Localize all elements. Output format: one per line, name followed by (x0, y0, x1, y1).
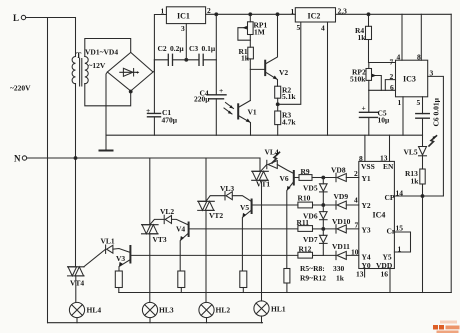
wire VL2 anode to V4 (172, 219, 189, 225)
svg-text:2,3: 2,3 (338, 7, 348, 16)
svg-text:R12: R12 (299, 245, 312, 254)
svg-text:C6 0.01μ: C6 0.01μ (432, 97, 441, 126)
svg-text:7: 7 (390, 58, 394, 67)
capacitor C3 (186, 59, 216, 61)
node L terminal (21, 15, 25, 19)
svg-text:Y2: Y2 (362, 201, 371, 210)
svg-text:VD8: VD8 (331, 166, 346, 175)
wire IC1 pin3 down (185, 24, 187, 60)
svg-text:C2: C2 (158, 44, 167, 53)
svg-text:1: 1 (291, 7, 295, 16)
wire secondary bottom loop to bridge (85, 84, 131, 106)
potentiometer RP1 (248, 22, 254, 35)
wire IC4 EN up (389, 135, 391, 161)
svg-text:VL4: VL4 (265, 148, 279, 157)
wire VT1 gate diagonal to VL4 (261, 165, 267, 171)
svg-text:3: 3 (430, 69, 434, 78)
wire left vertical from L to bottom bus (47, 18, 49, 323)
node rail junction x=216 (215, 13, 218, 16)
svg-text:N: N (14, 154, 21, 164)
svg-text:R11: R11 (297, 218, 310, 227)
wire N rail (27, 157, 260, 159)
svg-text:V1: V1 (248, 108, 257, 117)
wire regulator-out vertical x=216.3 (215, 14, 217, 135)
transformer T primary line (75, 18, 77, 57)
svg-text:VL5: VL5 (404, 148, 418, 157)
transformer T core (80, 59, 82, 87)
diode VD5 (320, 184, 328, 191)
svg-text:4: 4 (397, 53, 401, 62)
wire secondary top to bridge (85, 39, 131, 57)
IC1 box (166, 7, 205, 24)
resistor R7 (240, 271, 247, 288)
svg-text:VL3: VL3 (220, 184, 234, 193)
bridge rectifier VD1~VD4 diamond (107, 52, 153, 91)
svg-text:V5: V5 (240, 203, 249, 212)
triac VT2 (198, 201, 215, 210)
wire N rail to VT2 (205, 158, 207, 201)
resistor R13 (420, 169, 425, 184)
svg-text:R5~R8:: R5~R8: (300, 264, 325, 273)
svg-text:VL2: VL2 (160, 207, 174, 216)
wire IC2 pin4 down (327, 22, 329, 135)
svg-text:13: 13 (356, 270, 364, 279)
capacitor C2 (154, 59, 186, 61)
svg-text:V6: V6 (280, 174, 289, 183)
ground (100, 150, 113, 152)
svg-text:470μ: 470μ (162, 116, 178, 125)
svg-text:10μ: 10μ (378, 116, 391, 125)
svg-text:7: 7 (355, 221, 359, 230)
optocoupler transistor V1 (237, 104, 239, 118)
svg-text:IC3: IC3 (403, 75, 416, 84)
transistor V5 (251, 200, 253, 214)
svg-text:10: 10 (351, 248, 359, 257)
LED VL2 (165, 215, 171, 223)
wire rail IC2 right to corner (336, 13, 452, 15)
svg-text:8: 8 (417, 53, 421, 62)
node N terminal (22, 156, 26, 160)
wire IC3 pin7 (369, 62, 396, 64)
svg-text:+: + (362, 104, 366, 113)
svg-text:4: 4 (354, 196, 358, 205)
resistor R3 (275, 111, 281, 125)
wire IC1 input from bridge right vertex (153, 15, 166, 73)
svg-text:1M: 1M (254, 28, 265, 37)
svg-text:6: 6 (390, 83, 394, 92)
IC3 box (396, 60, 428, 97)
svg-text:VD9: VD9 (334, 192, 349, 201)
svg-text:VD10: VD10 (332, 217, 351, 226)
svg-text:1k: 1k (336, 274, 345, 283)
wire L top (26, 17, 76, 19)
svg-text:L: L (13, 13, 19, 23)
svg-text:15: 15 (396, 224, 404, 233)
wire IC4 VSS up (364, 135, 366, 161)
svg-text:VD7: VD7 (303, 235, 318, 244)
wire VL3 anode to V5 (232, 196, 251, 202)
svg-text:330: 330 (333, 264, 345, 273)
svg-text:VT2: VT2 (209, 211, 223, 220)
svg-text:R9~R12: R9~R12 (300, 274, 326, 283)
svg-text:R10: R10 (298, 194, 311, 203)
svg-text:VD1~VD4: VD1~VD4 (85, 48, 118, 57)
svg-text:0.2μ: 0.2μ (170, 44, 184, 53)
wire right rail down (450, 14, 452, 292)
svg-text:1k: 1k (358, 33, 367, 42)
wire N rail to VT3 (149, 158, 151, 225)
diode VD8 (337, 174, 346, 182)
svg-text:VSS: VSS (361, 162, 375, 171)
wire IC3 pin1 down (402, 97, 404, 135)
svg-text:Y3: Y3 (362, 226, 371, 235)
svg-text:16: 16 (381, 270, 389, 279)
svg-text:VT4: VT4 (70, 279, 84, 288)
svg-text:HL4: HL4 (87, 306, 102, 315)
svg-text:VL1: VL1 (101, 237, 115, 246)
wire VDD bus (119, 292, 451, 294)
LED VL3 (226, 192, 232, 200)
svg-text:R9: R9 (301, 167, 310, 176)
diode VD11 (337, 251, 346, 259)
svg-text:C3: C3 (189, 44, 198, 53)
svg-text:V2: V2 (279, 68, 288, 77)
svg-text:13: 13 (380, 154, 388, 163)
svg-text:Cr: Cr (387, 227, 396, 236)
svg-text:VT1: VT1 (256, 180, 270, 189)
capacitor C6 (416, 114, 430, 119)
LED VL1 (107, 245, 113, 253)
wire IC2 pin5 down (278, 22, 301, 104)
transistor V2 (264, 61, 266, 75)
svg-text:1k: 1k (241, 54, 250, 63)
wire IC3 pin5 down to C6 (422, 97, 424, 135)
svg-text:+: + (219, 86, 223, 95)
triac VT3 (142, 225, 159, 234)
potentiometer RP2 (366, 69, 372, 81)
svg-text:V4: V4 (176, 225, 185, 234)
capacitor C1 (148, 113, 161, 116)
svg-text:HL2: HL2 (216, 306, 231, 315)
wire VT4 gate diagonal to VL1 (84, 249, 106, 267)
resistor R1 (248, 47, 254, 59)
svg-text:CP: CP (385, 193, 395, 202)
svg-text:0.1μ: 0.1μ (202, 44, 216, 53)
resistor R11 (298, 226, 313, 232)
resistor R9 (299, 175, 312, 181)
wire N rail corner to VT1 (259, 158, 261, 171)
svg-text:1: 1 (161, 7, 165, 16)
transistor V3 (129, 246, 131, 263)
svg-text:5: 5 (417, 98, 421, 107)
lamp HL2 (199, 302, 214, 317)
diode VD9 (337, 201, 346, 209)
svg-text:5.1k: 5.1k (282, 92, 296, 101)
svg-text:VD11: VD11 (332, 242, 350, 251)
svg-text:1: 1 (398, 245, 402, 254)
svg-text:T: T (76, 51, 82, 60)
wire VL1 anode to V3 (113, 249, 130, 253)
wire IC3 pin3 right (428, 76, 444, 196)
wire IC3 pin2 (385, 80, 395, 91)
wire C1 vertical (153, 60, 155, 135)
wire VT3 to HL3 (149, 234, 151, 303)
svg-text:IC4: IC4 (373, 211, 386, 220)
svg-text:HL1: HL1 (271, 305, 286, 314)
svg-text:4: 4 (321, 24, 325, 33)
svg-text:V3: V3 (116, 254, 125, 263)
svg-text:14: 14 (396, 189, 404, 198)
wire VT4 to HL4 (75, 276, 77, 303)
svg-text:~220V: ~220V (10, 84, 31, 93)
capacitor C5 (368, 90, 370, 135)
VL4 lightning (272, 152, 280, 163)
wire VT3 gate diagonal to VL2 (150, 219, 164, 224)
triac VT4 (68, 267, 85, 276)
wire VT2 gate diagonal to VL3 (206, 196, 225, 202)
resistor R2 (275, 86, 281, 98)
transistor V4 (188, 223, 190, 237)
svg-text:HL3: HL3 (159, 306, 174, 315)
svg-text:8: 8 (359, 154, 363, 163)
diode VD7 (320, 235, 328, 242)
diode VD6 (320, 212, 328, 219)
diode VD10 (337, 225, 346, 233)
resistor R5 (115, 271, 122, 288)
node bridge bottom junction (129, 90, 132, 93)
resistor R4 (366, 26, 372, 39)
transformer T secondary coil (85, 56, 88, 83)
svg-text:Y1: Y1 (362, 174, 371, 183)
watermark (433, 321, 460, 333)
V1 light arrows (224, 103, 234, 115)
svg-text:+: + (146, 106, 150, 115)
svg-text:VT3: VT3 (153, 235, 167, 244)
svg-text:5: 5 (297, 23, 301, 32)
svg-text:4.7k: 4.7k (282, 118, 296, 127)
svg-text:220μ: 220μ (194, 95, 210, 104)
wire VT1 to HL1 (260, 180, 262, 301)
svg-text:1k: 1k (411, 177, 420, 186)
wire IC4 Y0 stub (364, 269, 366, 278)
wire IC3 pin6 (369, 89, 396, 91)
svg-text:2: 2 (354, 169, 358, 178)
wire VT2 to HL2 (205, 210, 207, 302)
svg-text:IC1: IC1 (177, 12, 190, 21)
LED VL4 (268, 161, 277, 169)
resistor R6 (178, 271, 185, 288)
svg-text:+: + (136, 71, 140, 77)
wire IC3 pin4 up (401, 14, 403, 60)
transistor V6 (293, 171, 295, 185)
capacitor C4 (207, 95, 226, 99)
svg-text:~12V: ~12V (89, 61, 106, 70)
wire IC1 out rail to IC2 (206, 13, 296, 15)
resistor R10 (298, 202, 313, 208)
ground bus (106, 134, 423, 136)
svg-text:EN: EN (383, 162, 394, 171)
lamp HL4 (69, 302, 84, 317)
wire IC4 Cr-Y5 loop (394, 232, 410, 252)
node C2/C3 mid junction (185, 58, 188, 61)
IC4 box (359, 161, 395, 268)
LED VL5 (419, 147, 427, 156)
lamp HL1 (254, 301, 269, 316)
lamp HL3 (142, 302, 157, 317)
wire VL5 line below bus (422, 135, 424, 146)
svg-text:3: 3 (181, 24, 185, 33)
wire IC4 VDD down (389, 269, 391, 293)
bridge inner diode (120, 71, 138, 73)
svg-text:1: 1 (398, 98, 402, 107)
svg-text:VD5: VD5 (303, 184, 318, 193)
resistor R8 (284, 269, 290, 284)
IC2 box (295, 8, 335, 22)
wire IC3 pin8 up (420, 14, 422, 60)
wire N rail to VT4 (transformer line continues) (74, 157, 77, 160)
transformer T primary coil (72, 56, 75, 83)
VL5 lightning (429, 136, 437, 146)
triac VT1 (252, 171, 269, 180)
svg-text:IC2: IC2 (308, 12, 321, 21)
resistor R12 (298, 252, 313, 258)
svg-text:2: 2 (207, 6, 211, 15)
svg-text:510k: 510k (350, 75, 366, 84)
wire bridge left vertex to ground (106, 72, 107, 151)
svg-text:2: 2 (390, 72, 394, 81)
wire CP line (394, 195, 443, 197)
wire VL4 anode to V6 collector (277, 165, 294, 174)
wire bottom lamp bus (48, 322, 263, 324)
